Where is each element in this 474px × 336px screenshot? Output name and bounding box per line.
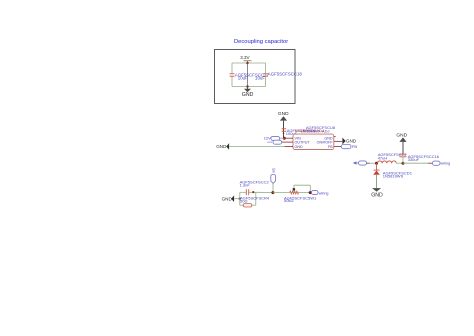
port OUT arrow flag xyxy=(353,161,367,165)
port output right xyxy=(433,161,451,165)
node VIN junction xyxy=(283,137,286,140)
svg-text:wiring: wiring xyxy=(441,162,451,166)
svg-text:ON/#OFF: ON/#OFF xyxy=(317,140,334,144)
ground in box xyxy=(242,87,254,98)
wire green rect parallel caps xyxy=(232,63,266,87)
node bypass dot xyxy=(293,188,295,190)
svg-text:1N5819WS: 1N5819WS xyxy=(383,174,404,179)
node port junction xyxy=(309,191,312,194)
node loop top right junction xyxy=(252,191,254,193)
capacitor C16 330uF xyxy=(399,154,439,163)
power flag 3.3V xyxy=(240,55,251,63)
op-amp U8 regulator body xyxy=(293,125,336,150)
svg-text:GND: GND xyxy=(346,139,357,144)
svg-text:GND: GND xyxy=(278,111,289,117)
title Decoupling capacitor xyxy=(234,39,288,45)
svg-text:GND: GND xyxy=(295,145,304,149)
port 12V xyxy=(264,135,282,144)
node cap junction xyxy=(402,162,405,165)
wire flag1 to VIN xyxy=(280,137,285,139)
capacitor C14 100uF xyxy=(282,128,317,136)
ground flag above C16 xyxy=(396,132,407,154)
svg-text:AGF5SCFSCC18: AGF5SCFSCC18 xyxy=(268,72,303,77)
port FB xyxy=(341,144,357,149)
svg-text:47uH: 47uH xyxy=(378,155,388,160)
svg-text:FB: FB xyxy=(328,145,333,149)
port bottom right xyxy=(312,190,329,195)
resistor R4 50 ohm xyxy=(240,195,270,207)
wire inductor to cap junction xyxy=(396,162,403,164)
ground net label bottom left xyxy=(222,195,235,202)
capacitor C17 xyxy=(230,72,270,80)
svg-text:50kΩ: 50kΩ xyxy=(284,198,293,203)
svg-text:3.3V: 3.3V xyxy=(240,55,249,60)
node loop left junction xyxy=(239,198,241,200)
ground net label right of IC xyxy=(342,138,356,145)
wire diode to ground xyxy=(376,175,378,188)
wire GND to IC xyxy=(229,146,284,148)
pin stub inductor left xyxy=(367,162,370,164)
svg-text:GND: GND xyxy=(371,192,383,198)
svg-text:GND: GND xyxy=(222,196,233,201)
node inductor-diode junction xyxy=(375,162,378,165)
capacitor C2 1.3nF xyxy=(240,179,270,195)
wire GND to RC loop xyxy=(234,198,240,200)
wire bypass loop over R5 xyxy=(294,185,310,192)
wire R5 to port xyxy=(299,192,312,194)
frame box xyxy=(215,50,296,104)
wire stub to junction xyxy=(370,162,378,164)
svg-text:GND: GND xyxy=(216,144,227,149)
svg-text:50Ω: 50Ω xyxy=(240,198,247,203)
svg-text:Decoupling capacitor: Decoupling capacitor xyxy=(234,39,288,45)
svg-text:GND: GND xyxy=(396,132,407,138)
wire junction to output port xyxy=(403,162,428,164)
svg-text:LM2596SX-ADJ: LM2596SX-ADJ xyxy=(301,128,330,133)
resistor R5 50k zigzag xyxy=(284,191,317,203)
svg-text:out: out xyxy=(267,140,271,144)
svg-text:330uF: 330uF xyxy=(408,157,420,162)
capacitor C18 xyxy=(255,72,302,81)
node bottom junction xyxy=(246,85,248,87)
svg-text:1.3nF: 1.3nF xyxy=(240,182,251,187)
svg-text:OUTPUT: OUTPUT xyxy=(295,140,311,144)
node center junction xyxy=(271,191,274,194)
ground net label left xyxy=(216,143,229,150)
pin stubs U8 left xyxy=(282,138,293,146)
wire center vertical xyxy=(247,63,249,87)
pin stubs U8 right xyxy=(334,137,342,147)
diode D1 1N5819WS xyxy=(373,163,412,178)
pin stub output port xyxy=(428,162,433,164)
svg-text:wiring: wiring xyxy=(319,191,329,195)
svg-text:10uF: 10uF xyxy=(238,76,248,81)
svg-text:10uF: 10uF xyxy=(255,76,265,81)
svg-text:adj: adj xyxy=(271,168,275,173)
ground flag top (above C14) xyxy=(278,111,289,138)
wire loop to center junction xyxy=(256,191,273,193)
port adj vertical xyxy=(271,168,276,192)
svg-text:FB: FB xyxy=(352,144,357,149)
inductor L1 47uH xyxy=(378,152,407,163)
node top junction xyxy=(246,62,248,64)
svg-text:GND: GND xyxy=(242,92,254,98)
ground below diode xyxy=(371,188,383,198)
wire center junction to R5 xyxy=(273,192,290,194)
wire RC loop rect xyxy=(240,192,256,205)
